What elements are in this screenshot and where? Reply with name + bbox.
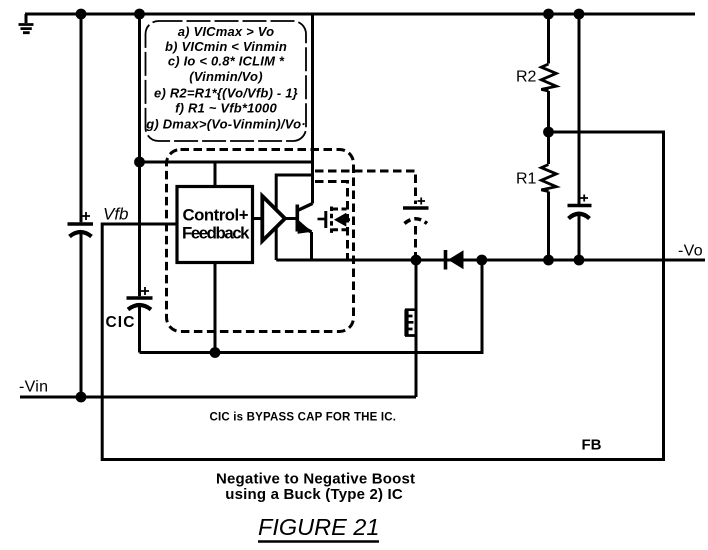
- svg-text:b) VICmin < Vinmin: b) VICmin < Vinmin: [165, 39, 287, 54]
- svg-text:using a Buck (Type 2) IC: using a Buck (Type 2) IC: [225, 486, 403, 503]
- svg-text:a) VICmax > Vo: a) VICmax > Vo: [178, 24, 275, 39]
- svg-text:FIGURE 21: FIGURE 21: [258, 514, 379, 540]
- svg-text:f) R1 ~ Vfb*1000: f) R1 ~ Vfb*1000: [175, 101, 277, 116]
- svg-text:-Vo: -Vo: [678, 243, 703, 260]
- svg-text:R1: R1: [516, 171, 537, 188]
- svg-text:c) Io < 0.8* ICLIM *: c) Io < 0.8* ICLIM *: [168, 54, 285, 69]
- svg-text:-Vin: -Vin: [19, 379, 48, 396]
- svg-text:Vfb: Vfb: [103, 204, 129, 223]
- svg-text:(Vinmin/Vo): (Vinmin/Vo): [189, 69, 262, 84]
- svg-text:e) R2=R1*{(Vo/Vfb) - 1}: e) R2=R1*{(Vo/Vfb) - 1}: [154, 86, 298, 101]
- svg-text:g) Dmax>(Vo-Vinmin)/Vo·: g) Dmax>(Vo-Vinmin)/Vo·: [145, 117, 306, 132]
- svg-text:Negative to Negative Boost: Negative to Negative Boost: [216, 471, 415, 488]
- svg-text:Control+: Control+: [183, 206, 249, 225]
- svg-text:FB: FB: [582, 437, 602, 454]
- svg-text:CIC: CIC: [106, 314, 136, 331]
- svg-text:R2: R2: [516, 69, 537, 86]
- svg-text:CIC is BYPASS CAP FOR THE IC.: CIC is BYPASS CAP FOR THE IC.: [210, 412, 397, 424]
- svg-text:Feedback: Feedback: [182, 224, 250, 243]
